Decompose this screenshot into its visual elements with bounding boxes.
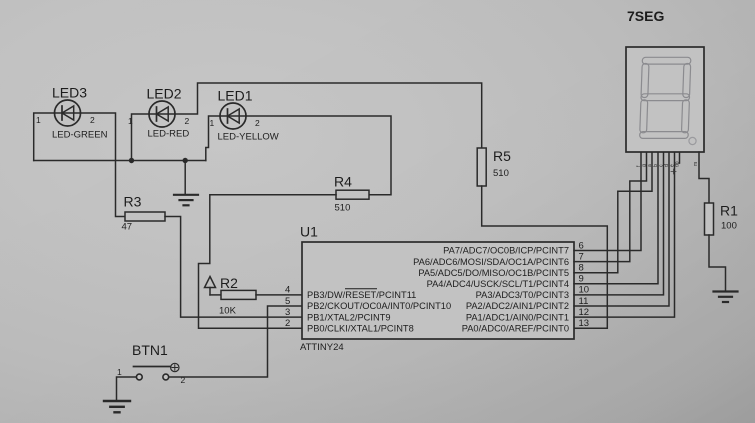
pin 2 PB0 bbox=[285, 318, 414, 333]
wire BTN1 pin2 to PB2 pin5 bbox=[169, 306, 302, 377]
power VCC arrow bbox=[205, 277, 216, 295]
svg-text:PA7/ADC7/OC0B/ICP/PCINT7: PA7/ADC7/OC0B/ICP/PCINT7 bbox=[443, 246, 569, 256]
ground (LED bus) bbox=[174, 195, 198, 206]
svg-text:R3: R3 bbox=[124, 194, 142, 210]
wire 7SEG pin 1 to MCU row 6 bbox=[574, 152, 641, 251]
ground (R1) bbox=[714, 292, 738, 303]
svg-text:1: 1 bbox=[210, 118, 215, 128]
svg-text:LED-RED: LED-RED bbox=[148, 129, 190, 140]
svg-text:R2: R2 bbox=[220, 275, 238, 291]
wire R1 to ground bbox=[709, 235, 726, 291]
svg-text:BTN1: BTN1 bbox=[132, 342, 168, 358]
wire VCC to R2 bbox=[210, 294, 221, 296]
svg-text:LED1: LED1 bbox=[218, 88, 253, 104]
wire LED1 pin2 to R4 bbox=[246, 116, 391, 195]
svg-text:R4: R4 bbox=[334, 174, 352, 190]
svg-text:11: 11 bbox=[579, 296, 589, 307]
svg-text:7SEG: 7SEG bbox=[627, 8, 664, 24]
pin 8 PA5 bbox=[418, 263, 583, 278]
svg-text:PB3/DW/RESET/PCINT11: PB3/DW/RESET/PCINT11 bbox=[307, 290, 416, 300]
svg-text:10: 10 bbox=[579, 285, 590, 296]
svg-text:PA0/ADC0/AREF/PCINT0: PA0/ADC0/AREF/PCINT0 bbox=[462, 323, 569, 333]
pin 4 PB3 bbox=[285, 285, 416, 300]
svg-text:2: 2 bbox=[90, 115, 95, 125]
wire bus to ground bbox=[184, 161, 186, 195]
op-amp U1 body (ATTINY24 MCU) bbox=[302, 242, 574, 339]
7SEG decimal point bbox=[689, 137, 696, 144]
svg-text:100: 100 bbox=[721, 221, 737, 232]
svg-text:PA1/ADC1/AIN0/PCINT1: PA1/ADC1/AIN0/PCINT1 bbox=[466, 312, 569, 322]
resistor R2 10K bbox=[221, 290, 256, 299]
svg-text:1: 1 bbox=[36, 115, 41, 125]
LED LED3 bbox=[36, 85, 108, 141]
button BTN1 bbox=[117, 342, 186, 385]
svg-text:5: 5 bbox=[285, 296, 290, 307]
svg-text:510: 510 bbox=[493, 168, 509, 179]
svg-text:LED-GREEN: LED-GREEN bbox=[52, 130, 108, 141]
svg-text:dp: dp bbox=[675, 161, 681, 167]
svg-text:R1: R1 bbox=[720, 203, 738, 219]
svg-text:2: 2 bbox=[285, 318, 290, 329]
resistor R4 510 bbox=[336, 190, 369, 199]
svg-text:LED-YELLOW: LED-YELLOW bbox=[218, 132, 279, 143]
svg-text:47: 47 bbox=[122, 222, 133, 233]
wire LED3 pin2 to R3 bbox=[81, 113, 126, 217]
wire LED3 pin1 to ground bus bbox=[34, 113, 55, 161]
svg-text:LED2: LED2 bbox=[147, 86, 182, 102]
resistor R3 47 bbox=[125, 212, 165, 221]
pin 11 PA2 bbox=[466, 296, 589, 311]
wire R2 to PB3 pin4 bbox=[256, 294, 302, 296]
svg-text:ATTINY24: ATTINY24 bbox=[300, 342, 344, 353]
wire 7SEG pin 3 to MCU row 8 bbox=[574, 152, 652, 273]
svg-text:3: 3 bbox=[285, 307, 290, 318]
svg-text:PA3/ADC3/T0/PCINT3: PA3/ADC3/T0/PCINT3 bbox=[476, 290, 569, 300]
wire 7SEG pin 7 to MCU row 12 bbox=[574, 152, 675, 317]
wire R5 bottom to PA0 pin13 bbox=[482, 186, 608, 328]
wire 7SEG pin 5 to MCU row 10 bbox=[574, 152, 664, 295]
svg-text:PA5/ADC5/DO/MISO/OC1B/PCINT5: PA5/ADC5/DO/MISO/OC1B/PCINT5 bbox=[418, 268, 569, 278]
wire 7SEG common to R1 bbox=[699, 152, 709, 203]
wire 7SEG pin 4 to MCU row 9 bbox=[574, 152, 658, 284]
svg-text:U1: U1 bbox=[300, 224, 318, 240]
resistor R5 510 bbox=[477, 148, 486, 186]
svg-text:12: 12 bbox=[579, 307, 590, 318]
pin 5 PB2 bbox=[285, 296, 451, 311]
wire 7SEG pin 2 to MCU row 7 bbox=[574, 152, 647, 262]
junction LED2 bus bbox=[129, 158, 134, 163]
svg-text:2: 2 bbox=[185, 116, 190, 126]
svg-text:10K: 10K bbox=[219, 306, 237, 317]
svg-text:PB1/XTAL2/PCINT9: PB1/XTAL2/PCINT9 bbox=[307, 312, 391, 322]
overline RESET bbox=[346, 288, 377, 290]
svg-text:PB0/CLKI/XTAL1/PCINT8: PB0/CLKI/XTAL1/PCINT8 bbox=[307, 323, 414, 333]
svg-text:8: 8 bbox=[579, 263, 584, 274]
pin 6 PA7 bbox=[443, 240, 584, 255]
pin 10 PA3 bbox=[476, 285, 589, 300]
svg-text:PA6/ADC6/MOSI/SDA/OC1A/PCINT6: PA6/ADC6/MOSI/SDA/OC1A/PCINT6 bbox=[413, 257, 569, 267]
svg-text:LED3: LED3 bbox=[52, 85, 87, 101]
7SEG digit segments bbox=[640, 57, 691, 138]
7SEG pin name labels bbox=[636, 161, 699, 174]
wire LED1 pin1 drop bbox=[206, 116, 220, 161]
svg-text:9: 9 bbox=[579, 274, 584, 285]
wire LED2 pin2 to R5 top bbox=[175, 83, 482, 148]
svg-text:PA4/ADC4/USCK/SCL/T1/PCINT4: PA4/ADC4/USCK/SCL/T1/PCINT4 bbox=[427, 279, 569, 289]
wire 7SEG pin 8 stub bbox=[679, 152, 681, 163]
svg-text:6: 6 bbox=[579, 240, 584, 251]
svg-text:PA2/ADC2/AIN1/PCINT2: PA2/ADC2/AIN1/PCINT2 bbox=[466, 301, 569, 311]
svg-text:1: 1 bbox=[117, 367, 122, 377]
LED LED2 bbox=[128, 86, 190, 140]
svg-text:R5: R5 bbox=[493, 148, 511, 164]
svg-text:4: 4 bbox=[285, 285, 290, 296]
svg-text:13: 13 bbox=[579, 318, 590, 329]
pin 3 PB1 bbox=[285, 307, 391, 322]
wire LED2 pin1 drop bbox=[132, 114, 150, 161]
LED LED1 bbox=[210, 88, 279, 143]
pin 12 PA1 bbox=[466, 307, 589, 322]
pin 7 PA6 bbox=[413, 251, 584, 266]
ground (BTN1) bbox=[104, 401, 130, 412]
junction ground bus bbox=[183, 158, 188, 163]
svg-text:2: 2 bbox=[255, 118, 260, 128]
wire R3 to PB1 pin3 bbox=[165, 217, 302, 318]
wire BTN1 pin1 to ground bbox=[117, 377, 137, 401]
svg-text:PB2/CKOUT/OC0A/INT0/PCINT10: PB2/CKOUT/OC0A/INT0/PCINT10 bbox=[307, 301, 451, 311]
wire R4 to PB0 pin2 bbox=[199, 195, 337, 329]
pin 13 PA0 bbox=[462, 318, 589, 333]
svg-text:7: 7 bbox=[579, 251, 584, 262]
wire ground bus bbox=[34, 160, 206, 162]
resistor R1 100 bbox=[705, 203, 714, 235]
svg-text:m: m bbox=[693, 162, 699, 166]
wire 7SEG pin 6 to MCU row 11 bbox=[574, 152, 669, 306]
pin 9 PA4 bbox=[427, 274, 584, 289]
svg-text:510: 510 bbox=[335, 203, 351, 214]
